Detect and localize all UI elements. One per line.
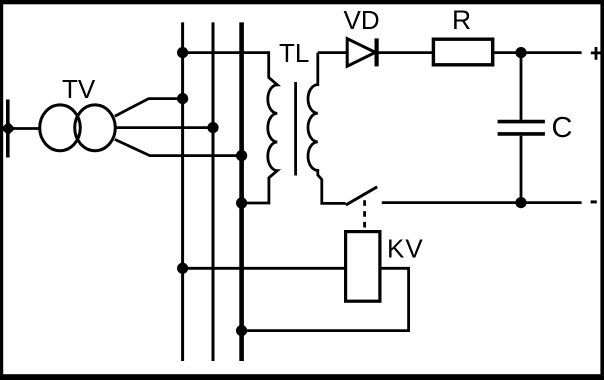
resistor R bbox=[433, 39, 492, 65]
svg-text:TL: TL bbox=[279, 38, 309, 68]
junction plus rail / capacitor top bbox=[515, 47, 526, 58]
wire capacitor bottom lead bbox=[520, 136, 523, 203]
mechanical link dashed bbox=[363, 200, 366, 231]
svg-text:TV: TV bbox=[62, 74, 96, 104]
junction bus A / TV upper phase bbox=[177, 93, 188, 104]
wire fixed contact to minus terminal bbox=[382, 201, 582, 204]
transformer TV primary winding circle bbox=[40, 105, 81, 151]
transformer TV secondary winding circle bbox=[75, 105, 116, 151]
bus line C bbox=[239, 22, 244, 361]
wire TV secondary upper phase to bus A bbox=[115, 99, 183, 117]
svg-text:R: R bbox=[452, 5, 471, 35]
junction bus B / TV middle phase bbox=[207, 122, 218, 133]
wire diode to resistor bbox=[378, 51, 434, 54]
wire bus A to relay KV coil bbox=[183, 267, 346, 270]
wire capacitor top lead bbox=[520, 53, 523, 120]
wire input to TV primary bbox=[7, 127, 39, 130]
wire relay KV to bus C return bbox=[242, 268, 409, 330]
junction bus C / TL primary bottom wire bbox=[236, 197, 247, 208]
transformer TL core bbox=[294, 82, 297, 176]
svg-text:VD: VD bbox=[344, 5, 380, 35]
bus line A bbox=[181, 22, 184, 361]
junction bus C / TV lower phase bbox=[236, 150, 247, 161]
contact KV blade bbox=[346, 187, 377, 205]
wire TL secondary top to diode bbox=[318, 51, 347, 54]
terminal minus sign bbox=[591, 200, 597, 203]
svg-text:KV: KV bbox=[387, 234, 424, 264]
relay KV coil bbox=[346, 232, 380, 302]
junction diamond on input terminal bbox=[1, 122, 15, 136]
junction bus C / relay return wire bbox=[236, 325, 247, 336]
transformer TL secondary winding bbox=[308, 53, 346, 204]
terminal plus sign bbox=[591, 47, 602, 60]
junction minus rail / capacitor bottom bbox=[515, 197, 526, 208]
diode VD cathode bar bbox=[375, 38, 379, 66]
capacitor C top plate bbox=[498, 120, 545, 124]
wire TV secondary middle phase to bus B bbox=[116, 126, 213, 129]
wire TV secondary lower phase to bus C bbox=[115, 139, 242, 155]
capacitor C bottom plate bbox=[498, 132, 545, 136]
svg-text:C: C bbox=[552, 112, 573, 144]
diode VD triangle bbox=[347, 39, 375, 67]
transformer TL primary winding bbox=[242, 51, 278, 203]
node left input terminal bar bbox=[6, 100, 10, 158]
junction bus A / TL primary top wire bbox=[177, 47, 188, 58]
bus line B bbox=[212, 22, 215, 361]
wire bus A to TL primary top bbox=[183, 51, 269, 54]
junction bus A / relay feed wire bbox=[177, 263, 188, 274]
wire resistor to plus terminal bbox=[493, 51, 582, 54]
